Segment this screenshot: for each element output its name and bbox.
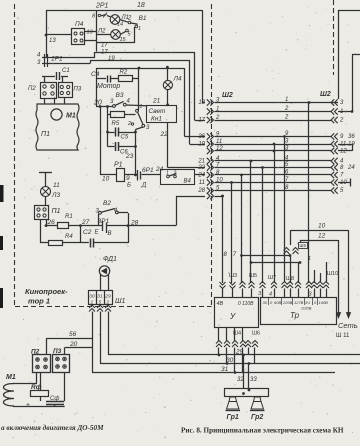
svg-text:М1: М1 [6, 374, 16, 381]
svg-text:Ш10: Ш10 [327, 271, 338, 277]
svg-text:В1: В1 [139, 15, 147, 22]
svg-text:а включения двигателя ДО-50М: а включения двигателя ДО-50М [1, 424, 104, 432]
svg-text:21: 21 [197, 159, 205, 165]
svg-text:2: 2 [284, 115, 289, 121]
svg-text:3Ч: 3Ч [305, 300, 310, 305]
svg-text:С6: С6 [120, 150, 128, 156]
svg-text:Ш9: Ш9 [300, 243, 307, 248]
svg-text:Д: Д [141, 183, 147, 189]
svg-text:24: 24 [197, 173, 205, 179]
svg-text:60В: 60В [274, 300, 281, 305]
svg-text:Тр: Тр [290, 311, 300, 320]
svg-text:17: 17 [101, 43, 108, 49]
svg-text:11: 11 [199, 180, 205, 186]
svg-text:С2: С2 [83, 229, 92, 236]
svg-text:R2: R2 [120, 70, 128, 76]
svg-text:10: 10 [318, 223, 326, 230]
svg-text:Ш6: Ш6 [252, 331, 260, 337]
svg-text:27: 27 [81, 219, 90, 226]
svg-text:С4: С4 [91, 71, 100, 78]
svg-text:0 110В: 0 110В [238, 301, 254, 307]
svg-text:/220В: /220В [300, 306, 312, 311]
svg-text:П2: П2 [28, 86, 36, 92]
svg-text:2Р1: 2Р1 [95, 3, 109, 10]
svg-text:Гр1: Гр1 [227, 414, 239, 421]
svg-text:36: 36 [348, 134, 355, 140]
svg-text:R4: R4 [65, 234, 73, 240]
svg-text:1Р1: 1Р1 [51, 56, 63, 63]
svg-text:21: 21 [152, 98, 161, 105]
svg-text:2: 2 [339, 118, 344, 124]
svg-text:12: 12 [318, 233, 326, 240]
svg-text:П3: П3 [74, 87, 82, 93]
svg-text:15: 15 [120, 37, 127, 43]
svg-text:22: 22 [160, 131, 169, 138]
svg-text:3Р1: 3Р1 [98, 218, 110, 225]
svg-text:220В: 220В [282, 300, 293, 305]
svg-text:В4: В4 [184, 179, 192, 185]
svg-text:Ш1: Ш1 [115, 298, 125, 305]
svg-text:4: 4 [269, 292, 272, 298]
svg-text:ФД1: ФД1 [103, 256, 117, 263]
svg-text:13: 13 [49, 38, 56, 44]
svg-text:30: 30 [263, 300, 268, 305]
svg-text:Кн1: Кн1 [151, 116, 162, 123]
svg-text:С1: С1 [62, 68, 70, 74]
svg-text:11: 11 [53, 182, 60, 189]
svg-text:П1: П1 [41, 131, 50, 138]
svg-text:33: 33 [250, 377, 257, 383]
svg-text:2: 2 [127, 121, 131, 127]
svg-text:1: 1 [308, 256, 311, 262]
svg-text:тор 1: тор 1 [28, 297, 50, 306]
svg-text:2: 2 [127, 16, 132, 22]
svg-text:В2: В2 [103, 200, 111, 207]
svg-text:Гр2: Гр2 [251, 414, 263, 421]
svg-text:28: 28 [197, 188, 205, 194]
svg-text:14: 14 [117, 22, 123, 28]
svg-text:Ш8: Ш8 [286, 276, 294, 282]
svg-text:Б: Б [127, 183, 131, 189]
svg-text:Л4: Л4 [173, 76, 182, 83]
svg-text:Л2: Л2 [97, 29, 106, 35]
svg-text:56: 56 [69, 331, 77, 338]
svg-text:+: + [26, 402, 30, 409]
svg-text:140В: 140В [319, 300, 329, 305]
svg-text:1: 1 [166, 171, 169, 177]
svg-text:1: 1 [138, 26, 141, 32]
svg-text:П4: П4 [75, 21, 84, 28]
svg-text:12: 12 [216, 146, 223, 152]
svg-text:1: 1 [140, 104, 143, 110]
svg-text:2: 2 [173, 171, 177, 177]
svg-text:31: 31 [97, 294, 103, 300]
svg-text:П1: П1 [52, 208, 61, 215]
svg-text:4В: 4В [217, 301, 224, 307]
svg-text:13: 13 [87, 30, 94, 36]
svg-text:Ш4: Ш4 [233, 331, 241, 337]
svg-text:Л3: Л3 [51, 192, 60, 199]
svg-text:В: В [108, 231, 112, 237]
svg-text:Ш5: Ш5 [249, 273, 257, 279]
svg-text:Мотор: Мотор [97, 83, 120, 90]
svg-text:Кинопроек-: Кинопроек- [25, 287, 68, 296]
svg-text:10: 10 [102, 176, 110, 183]
svg-text:Свет: Свет [149, 108, 166, 115]
svg-text:6Р1: 6Р1 [142, 167, 154, 174]
svg-text:М1: М1 [66, 113, 76, 120]
svg-text:Р1: Р1 [114, 162, 123, 169]
svg-text:С5: С5 [121, 135, 129, 141]
svg-text:R1: R1 [65, 214, 73, 220]
svg-text:Рис. 8. Принципиальная электри: Рис. 8. Принципиальная электрическая схе… [181, 427, 344, 435]
svg-text:1: 1 [285, 97, 288, 103]
svg-text:2: 2 [284, 106, 289, 112]
svg-text:Сеть: Сеть [338, 321, 358, 330]
svg-text:Ш2: Ш2 [222, 92, 233, 99]
svg-text:12: 12 [340, 149, 347, 155]
svg-text:22: 22 [197, 165, 205, 171]
svg-text:9: 9 [126, 175, 130, 182]
svg-text:24: 24 [347, 165, 355, 171]
svg-text:Ш7: Ш7 [268, 275, 276, 281]
svg-text:R5: R5 [112, 121, 120, 127]
svg-text:28: 28 [130, 220, 139, 227]
svg-text:В3: В3 [116, 92, 124, 99]
svg-text:29: 29 [104, 294, 111, 300]
svg-text:У: У [229, 312, 236, 321]
svg-text:30: 30 [89, 294, 95, 300]
svg-text:127В: 127В [294, 300, 304, 305]
svg-text:Ш2: Ш2 [320, 91, 331, 98]
svg-text:Ш3: Ш3 [229, 273, 237, 279]
svg-text:18: 18 [137, 2, 145, 9]
